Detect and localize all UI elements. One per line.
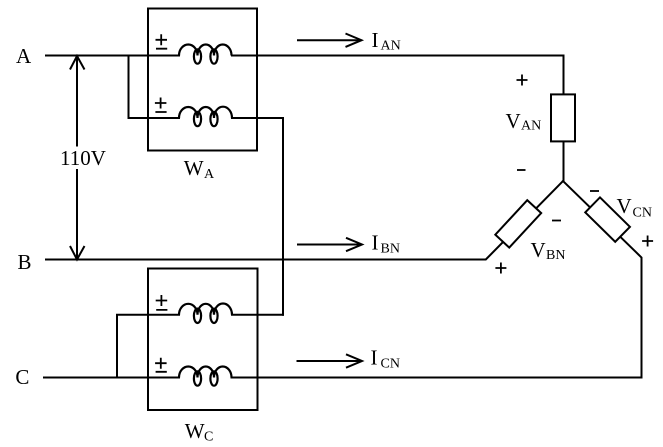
svg-text:CN: CN <box>381 357 400 372</box>
svg-text:C: C <box>15 365 29 389</box>
svg-text:V: V <box>506 109 521 133</box>
svg-text:C: C <box>204 430 213 445</box>
svg-text:AN: AN <box>381 39 401 54</box>
svg-text:I: I <box>372 28 379 52</box>
svg-text:110V: 110V <box>60 146 106 170</box>
svg-text:V: V <box>531 238 546 262</box>
svg-text:A: A <box>204 167 215 182</box>
svg-text:W: W <box>185 419 205 443</box>
svg-text:A: A <box>16 44 32 68</box>
svg-text:BN: BN <box>381 242 400 257</box>
svg-text:BN: BN <box>546 248 565 263</box>
svg-text:I: I <box>371 346 378 370</box>
svg-text:CN: CN <box>633 205 652 220</box>
svg-text:V: V <box>617 194 632 218</box>
svg-text:B: B <box>18 250 32 274</box>
svg-text:W: W <box>184 156 204 180</box>
svg-text:AN: AN <box>521 119 541 134</box>
svg-text:I: I <box>372 231 379 255</box>
